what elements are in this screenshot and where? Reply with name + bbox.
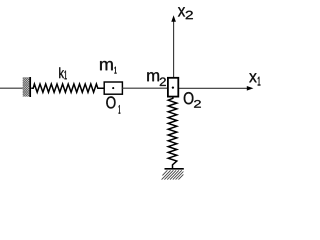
label k1 [59, 67, 66, 79]
label m2 [147, 72, 166, 86]
mass m2 [168, 78, 178, 97]
label m1 [100, 61, 117, 74]
label O1 [106, 96, 120, 113]
axis x2 (vertical) [171, 15, 176, 77]
axis x1 (horizontal) [179, 86, 254, 91]
spring k2 (vertical, below m2) [168, 97, 177, 169]
mass m1 [104, 82, 122, 94]
wall anchor (left fixed support) [23, 77, 31, 97]
wire: left leader line to wall [0, 87, 24, 89]
label x1 [249, 73, 260, 85]
spring k1 [31, 84, 104, 92]
label O2 [184, 92, 201, 108]
label x2 [178, 7, 193, 19]
ground anchor (bottom fixed support) [162, 169, 184, 180]
wire: m1 to m2 [122, 87, 168, 89]
